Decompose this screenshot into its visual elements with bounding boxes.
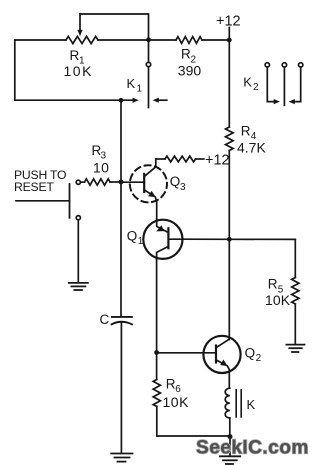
- svg-text:Q: Q: [170, 174, 181, 189]
- svg-text:2: 2: [256, 353, 262, 364]
- svg-text:4.7K: 4.7K: [237, 140, 266, 156]
- svg-text:R: R: [181, 47, 191, 62]
- svg-text:390: 390: [178, 63, 202, 79]
- svg-text:10K: 10K: [64, 63, 93, 79]
- resistor R5: [292, 278, 299, 305]
- resistor R2: [176, 37, 202, 44]
- node junction +12 rail: [227, 38, 232, 43]
- svg-text:K: K: [247, 397, 256, 412]
- wire capacitor to ground: [120, 323, 122, 453]
- wire R2 right lead: [202, 39, 229, 41]
- svg-text:Q: Q: [245, 345, 256, 360]
- wire R1 right lead: [98, 39, 149, 41]
- svg-text:3: 3: [180, 182, 186, 193]
- transistor Q2: [203, 336, 240, 388]
- node junction bottom rail/coil/ground: [228, 434, 233, 439]
- svg-text:K: K: [243, 74, 252, 89]
- pushbutton switch PUSH TO RESET: [16, 180, 85, 282]
- resistor R3: [85, 179, 111, 185]
- wire top loop of R1 wiper: [80, 14, 149, 40]
- svg-text:C: C: [100, 312, 110, 327]
- wire rail down to Q2 collector: [228, 239, 231, 339]
- wire R5 bottom lead: [294, 304, 296, 344]
- svg-text:10: 10: [93, 159, 109, 175]
- svg-text:2: 2: [253, 82, 259, 93]
- wire R3 node down to capacitor: [120, 182, 122, 316]
- svg-text:K: K: [127, 76, 136, 91]
- ground at relay coil: [220, 456, 240, 464]
- node junction rail/Q1 base: [227, 237, 232, 242]
- wire main top rail y40: [15, 39, 66, 41]
- wire Q1 base to rail and R5: [183, 238, 295, 240]
- svg-text:Q: Q: [127, 229, 138, 244]
- transistor Q1: [143, 219, 183, 260]
- svg-text:SeekIC.com: SeekIC.com: [196, 437, 309, 458]
- ground under R5: [286, 345, 304, 352]
- ground under pushbutton: [69, 283, 88, 290]
- wire left loop of R1: [15, 40, 121, 100]
- wire +12 rail down to R4: [228, 40, 230, 127]
- capacitor C: [112, 317, 132, 324]
- wire R6 bottom lead and bottom rail: [157, 407, 230, 437]
- resistor Q3 bias to +12: [165, 156, 196, 162]
- wire Q1 collector down: [156, 260, 158, 353]
- wire R5 top lead: [294, 239, 296, 277]
- wire Q2 base: [157, 352, 216, 354]
- wire coil bottom to node: [229, 418, 231, 437]
- wire Q3 collector to bias resistor: [156, 158, 165, 160]
- svg-text:RESET: RESET: [14, 180, 54, 194]
- relay coil K: [225, 388, 241, 418]
- svg-text:R: R: [70, 48, 80, 63]
- relay contact K1: [121, 41, 167, 108]
- svg-text:+12: +12: [205, 152, 230, 168]
- node junction R1/R2/K1: [146, 37, 151, 42]
- node junction K1 arm: [119, 98, 124, 103]
- wiper arrow of R1: [77, 14, 82, 36]
- wire R3 right lead: [110, 181, 121, 183]
- wire R2 left lead: [149, 39, 177, 41]
- resistor R6: [153, 380, 160, 407]
- svg-text:R: R: [166, 376, 176, 391]
- svg-text:1: 1: [138, 236, 144, 247]
- transistor Q3: [130, 159, 167, 219]
- relay contact K2: [265, 63, 303, 106]
- svg-text:10K: 10K: [265, 292, 291, 308]
- svg-text:R: R: [241, 123, 251, 138]
- wire Q3 base: [121, 181, 144, 183]
- wire K1 node down to R3 node: [120, 100, 122, 182]
- ground under capacitor: [111, 454, 132, 462]
- wire down to ground: [229, 437, 231, 456]
- power +12 stub: [228, 28, 230, 41]
- svg-text:+12: +12: [216, 13, 241, 29]
- svg-text:1: 1: [137, 84, 143, 95]
- wire bias resistor right lead: [196, 158, 204, 160]
- node junction Q1 collector/Q2 base: [154, 350, 159, 355]
- resistor R4: [226, 127, 234, 151]
- svg-text:R: R: [268, 277, 278, 292]
- wire R6 top lead from Q1 collector: [156, 353, 158, 380]
- svg-text:10K: 10K: [163, 394, 190, 410]
- resistor R1: [66, 36, 98, 43]
- node junction R3/Q3 base: [119, 180, 124, 185]
- wire rail R4 to Q2 collector junction: [228, 151, 230, 240]
